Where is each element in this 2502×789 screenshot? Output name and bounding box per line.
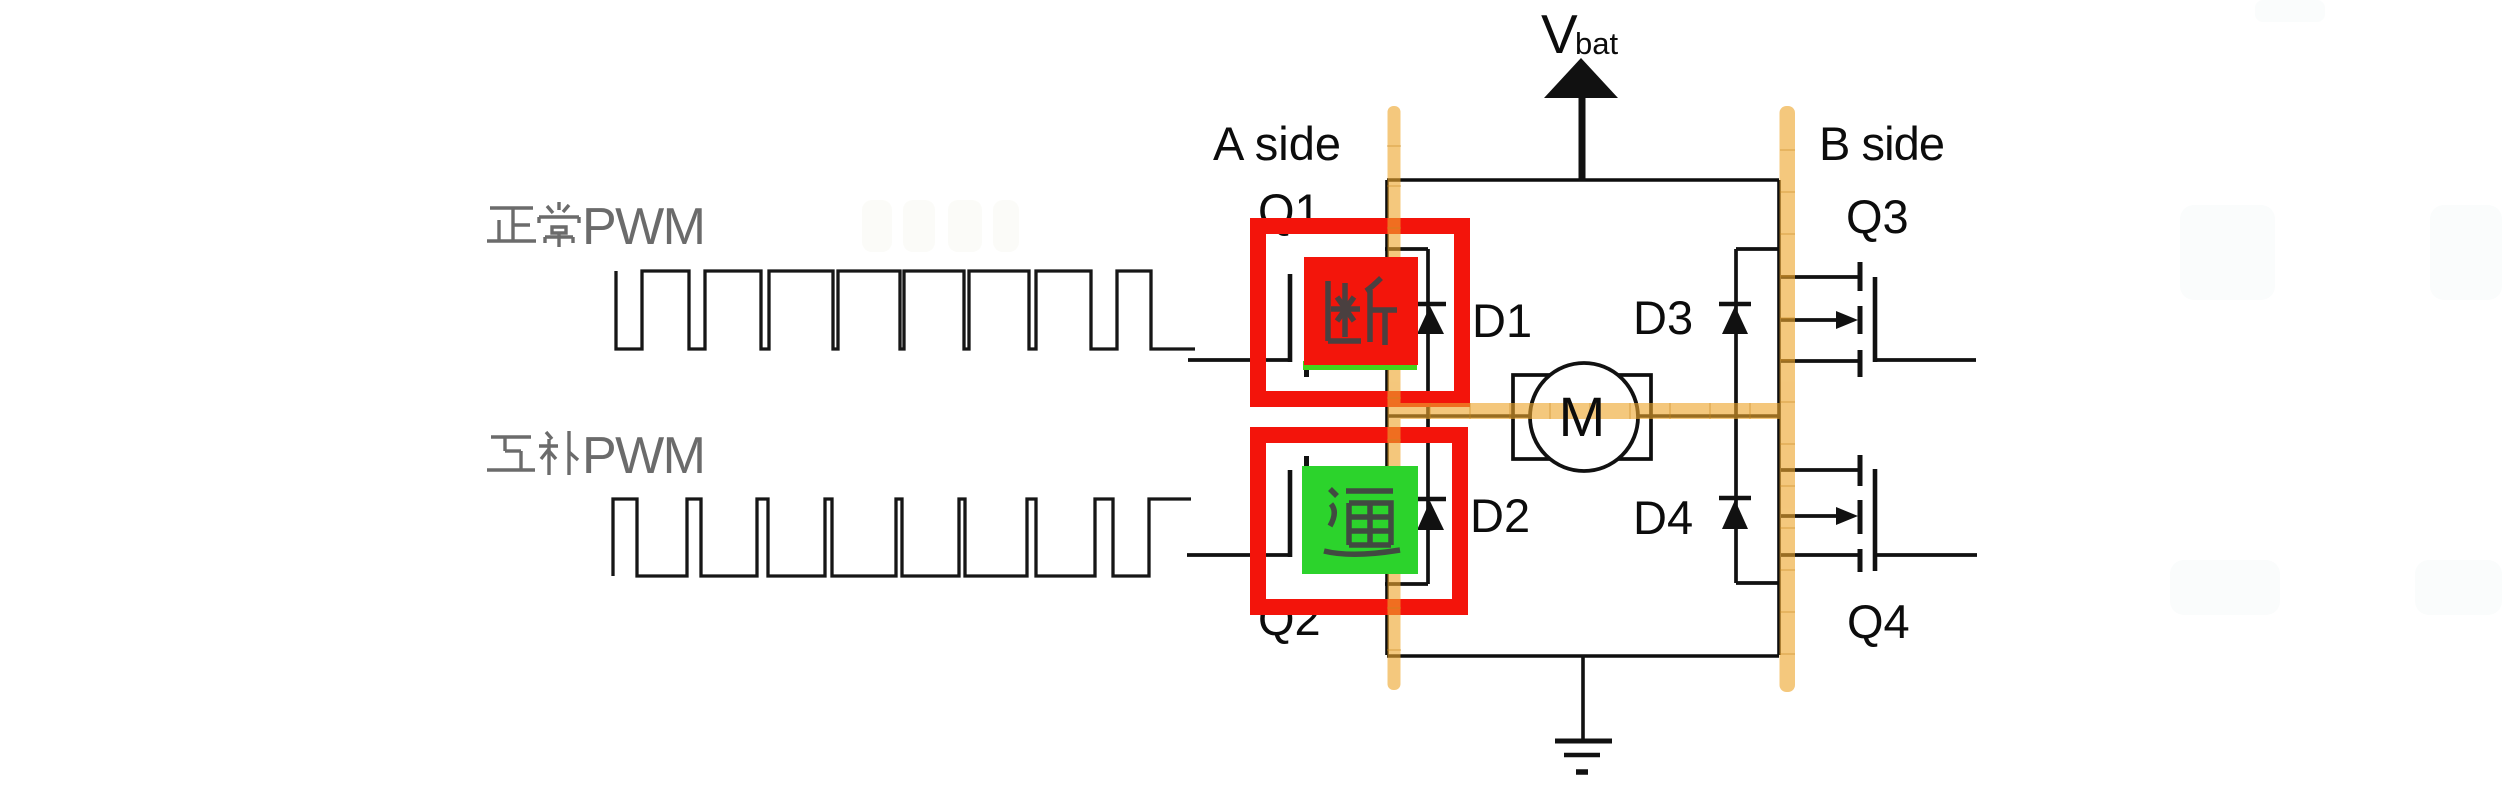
svg-text:D3: D3 (1633, 291, 1693, 344)
svg-text:M: M (1559, 385, 1606, 448)
svg-text:PWM: PWM (582, 198, 706, 256)
svg-text:D1: D1 (1472, 294, 1532, 347)
svg-text:D2: D2 (1470, 489, 1530, 542)
svg-text:B side: B side (1819, 117, 1945, 170)
svg-text:bat: bat (1575, 26, 1618, 61)
svg-text:Q4: Q4 (1847, 595, 1910, 648)
svg-text:PWM: PWM (582, 427, 706, 485)
svg-text:D4: D4 (1633, 491, 1693, 544)
svg-text:V: V (1541, 3, 1578, 65)
svg-text:A side: A side (1213, 117, 1341, 170)
svg-text:Q3: Q3 (1846, 190, 1909, 243)
